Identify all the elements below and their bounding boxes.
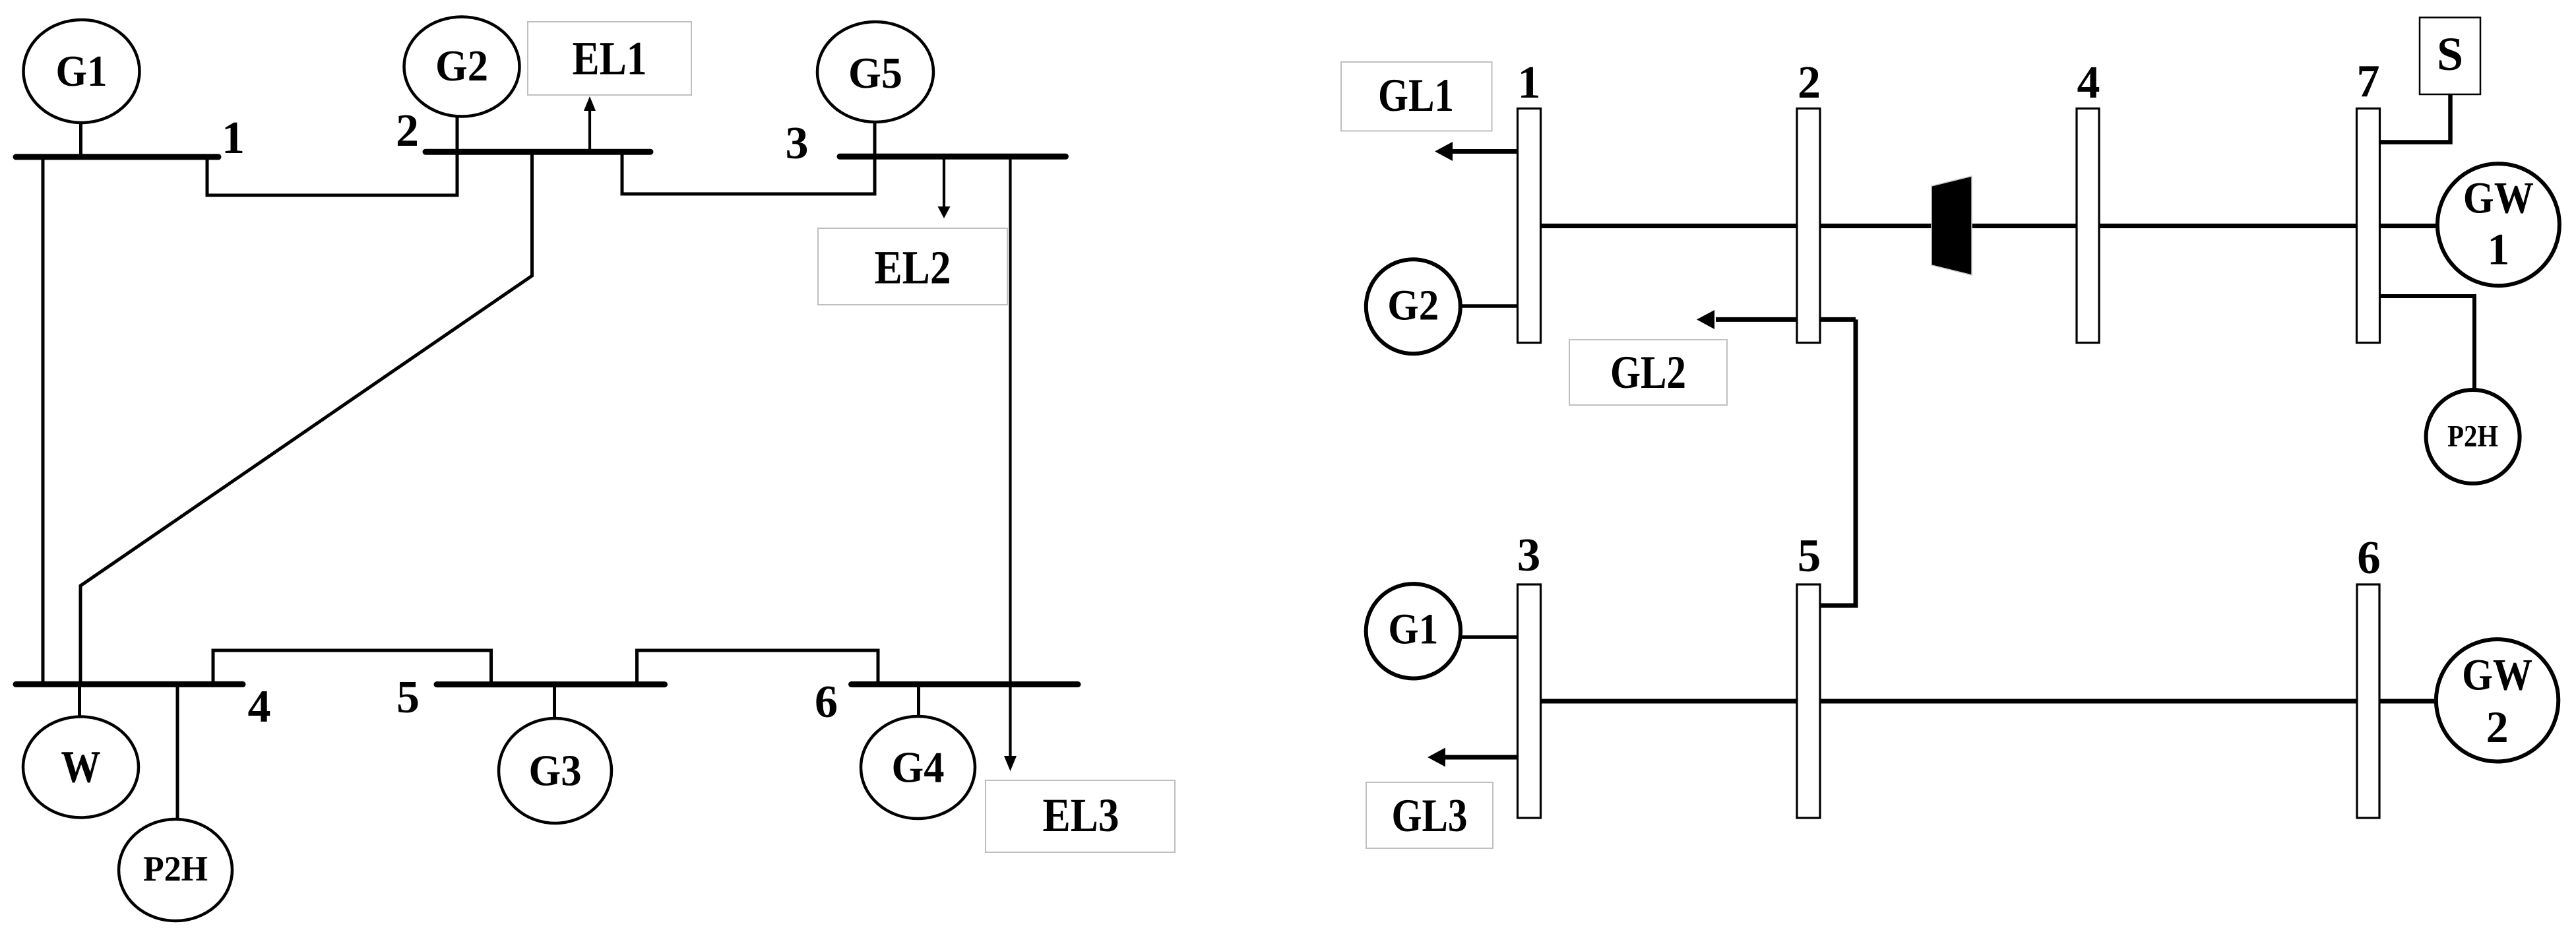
bus 3 (left diagram) [840, 154, 1066, 160]
wire G4 stem [917, 685, 920, 718]
wire P2H stem [176, 685, 179, 820]
wire G2 stem (gas) [1461, 304, 1517, 308]
gas source box S [2420, 18, 2480, 95]
bus 6 (left diagram) [852, 681, 1079, 687]
wire W stem [78, 685, 81, 718]
wire bus2 to bus3 U-connector [622, 152, 875, 195]
wire bus4 to bus5 U-connector [213, 650, 491, 685]
svg-text:GW: GW [2462, 650, 2532, 700]
svg-text:7: 7 [2357, 56, 2380, 107]
svg-text:2: 2 [1798, 57, 1821, 108]
gas pipeline top (bus1-compressor-bus4-bus7-GW1) [1540, 224, 2437, 228]
svg-text:S: S [2437, 28, 2463, 80]
gas bus 7 [2357, 109, 2380, 343]
svg-text:GL2: GL2 [1610, 347, 1686, 398]
wire G2 stem [456, 117, 459, 153]
gas bus 1 [1518, 109, 1541, 343]
load box EL2 [818, 228, 1007, 305]
wire bus1 to bus4 vertical [42, 157, 45, 685]
load arrow EL1 [584, 96, 596, 152]
generator G4 [861, 716, 975, 819]
svg-text:1: 1 [2487, 224, 2509, 274]
svg-text:3: 3 [1517, 530, 1541, 581]
svg-text:G5: G5 [848, 49, 902, 98]
svg-text:P2H: P2H [143, 849, 208, 889]
generator G3 [499, 718, 612, 823]
svg-text:5: 5 [1798, 530, 1821, 582]
wire G3 stem [553, 685, 556, 720]
wire bus1 to bus2 U-connector [207, 153, 457, 195]
gas well GW2 [2436, 639, 2558, 761]
svg-text:5: 5 [396, 672, 420, 723]
gas pipeline bottom (bus3-bus5-bus6-GW2) [1540, 699, 2437, 704]
svg-text:1: 1 [1518, 57, 1541, 108]
gas generator G1 [1366, 584, 1461, 678]
wire G1 stem [79, 123, 82, 157]
svg-text:1: 1 [222, 113, 245, 164]
gas bus 2 [1797, 109, 1820, 343]
svg-text:G2: G2 [1387, 282, 1439, 330]
svg-text:G1: G1 [1388, 606, 1438, 654]
generator G2 [404, 17, 520, 117]
wire G5 stem [873, 122, 877, 157]
svg-text:G4: G4 [892, 743, 945, 792]
gas load arrow GL2 with riser from bus5 [1697, 310, 1856, 606]
gas bus 6 [2357, 584, 2379, 818]
svg-text:P2H: P2H [2447, 420, 2498, 454]
gas P2H circle [2426, 390, 2520, 484]
svg-text:6: 6 [2357, 532, 2381, 584]
svg-text:EL2: EL2 [875, 241, 951, 294]
gas bus 4 [2077, 109, 2099, 343]
svg-text:GL1: GL1 [1378, 70, 1454, 121]
bus 4 (left diagram) [16, 681, 243, 687]
svg-text:4: 4 [248, 681, 271, 732]
power-to-hydrogen P2H (left) [119, 819, 232, 921]
svg-text:G1: G1 [56, 47, 108, 96]
gas load arrow GL1 [1435, 142, 1517, 161]
svg-text:GL3: GL3 [1392, 790, 1468, 842]
wire bus5 to bus6 U-connector [637, 650, 879, 685]
gas load box GL2 [1569, 340, 1727, 405]
svg-text:W: W [61, 742, 101, 792]
load arrow EL2 [938, 157, 951, 218]
svg-text:3: 3 [786, 118, 809, 169]
gas load box GL3 [1366, 782, 1493, 848]
svg-text:G3: G3 [529, 747, 582, 796]
wind generator W [23, 717, 139, 818]
gas well GW1 [2437, 164, 2560, 286]
svg-text:G2: G2 [435, 42, 488, 90]
wire bus2 to bus4 diagonal [80, 152, 532, 684]
svg-text:EL3: EL3 [1043, 789, 1119, 842]
gas load box GL1 [1341, 62, 1492, 131]
gas load arrow GL3 [1428, 748, 1517, 767]
gas generator G2 [1366, 259, 1461, 354]
generator G1 [24, 20, 140, 123]
svg-text:2: 2 [2486, 702, 2509, 752]
load box EL1 [528, 22, 691, 95]
bus 5 (left diagram) [437, 681, 665, 687]
svg-text:2: 2 [396, 106, 419, 156]
svg-text:EL1: EL1 [573, 32, 647, 85]
svg-text:6: 6 [815, 677, 838, 728]
svg-text:GW: GW [2463, 173, 2534, 223]
svg-text:4: 4 [2077, 57, 2100, 108]
generator G5 [817, 22, 933, 122]
load box EL3 [986, 780, 1175, 852]
bus 2 (left diagram) [425, 149, 650, 155]
gas bus 5 [1797, 584, 1820, 818]
load arrow EL3 [1004, 157, 1017, 771]
wire G1 stem (gas) [1461, 635, 1517, 639]
bus 1 (left diagram) [16, 154, 218, 160]
compressor [1932, 176, 1972, 275]
wire bus7 to P2H [2379, 296, 2474, 390]
wire S to bus7 [2379, 94, 2451, 142]
gas bus 3 [1518, 584, 1541, 818]
